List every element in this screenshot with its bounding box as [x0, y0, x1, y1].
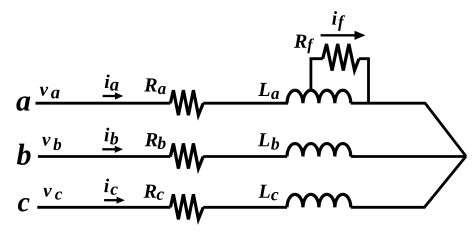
inductor L_a — [287, 90, 351, 103]
label i_c — [104, 179, 118, 195]
label v_a — [40, 87, 60, 99]
label L_c — [258, 185, 278, 201]
label v_b — [42, 137, 61, 150]
wire phase c left — [37, 206, 170, 209]
label R_c — [144, 185, 164, 200]
current arrow i_c — [104, 197, 125, 204]
label R_b — [145, 133, 166, 149]
wire phase a middle — [203, 102, 288, 105]
resistor R_c — [170, 194, 203, 219]
wire R_f branch left vertical — [311, 59, 323, 91]
wire phase a left — [36, 102, 171, 105]
label R_a — [144, 78, 166, 94]
label L_b — [258, 133, 279, 150]
phase label b — [17, 144, 31, 165]
label i_f — [332, 11, 345, 31]
resistor R_a — [170, 90, 203, 115]
wire phase b left — [38, 155, 171, 158]
phase label c — [18, 198, 30, 211]
wire phase b right — [351, 155, 466, 158]
wire phase c middle — [203, 206, 287, 209]
phase label a — [16, 96, 30, 110]
label i_b — [105, 128, 119, 145]
inductor L_b — [287, 144, 351, 157]
inductor L_c — [287, 194, 351, 207]
wire phase c right — [351, 156, 466, 207]
label R_f — [294, 35, 314, 54]
wire phase a right — [351, 103, 466, 156]
resistor R_b — [170, 144, 203, 169]
resistor R_f — [323, 44, 359, 71]
wire R_f branch right vertical — [359, 59, 369, 103]
wire phase b middle — [203, 155, 287, 158]
label v_c — [43, 188, 62, 200]
current arrow i_b — [102, 146, 123, 153]
current arrow i_a — [103, 92, 124, 99]
current arrow i_f — [321, 31, 366, 40]
label i_a — [105, 74, 119, 90]
label L_a — [258, 83, 279, 99]
